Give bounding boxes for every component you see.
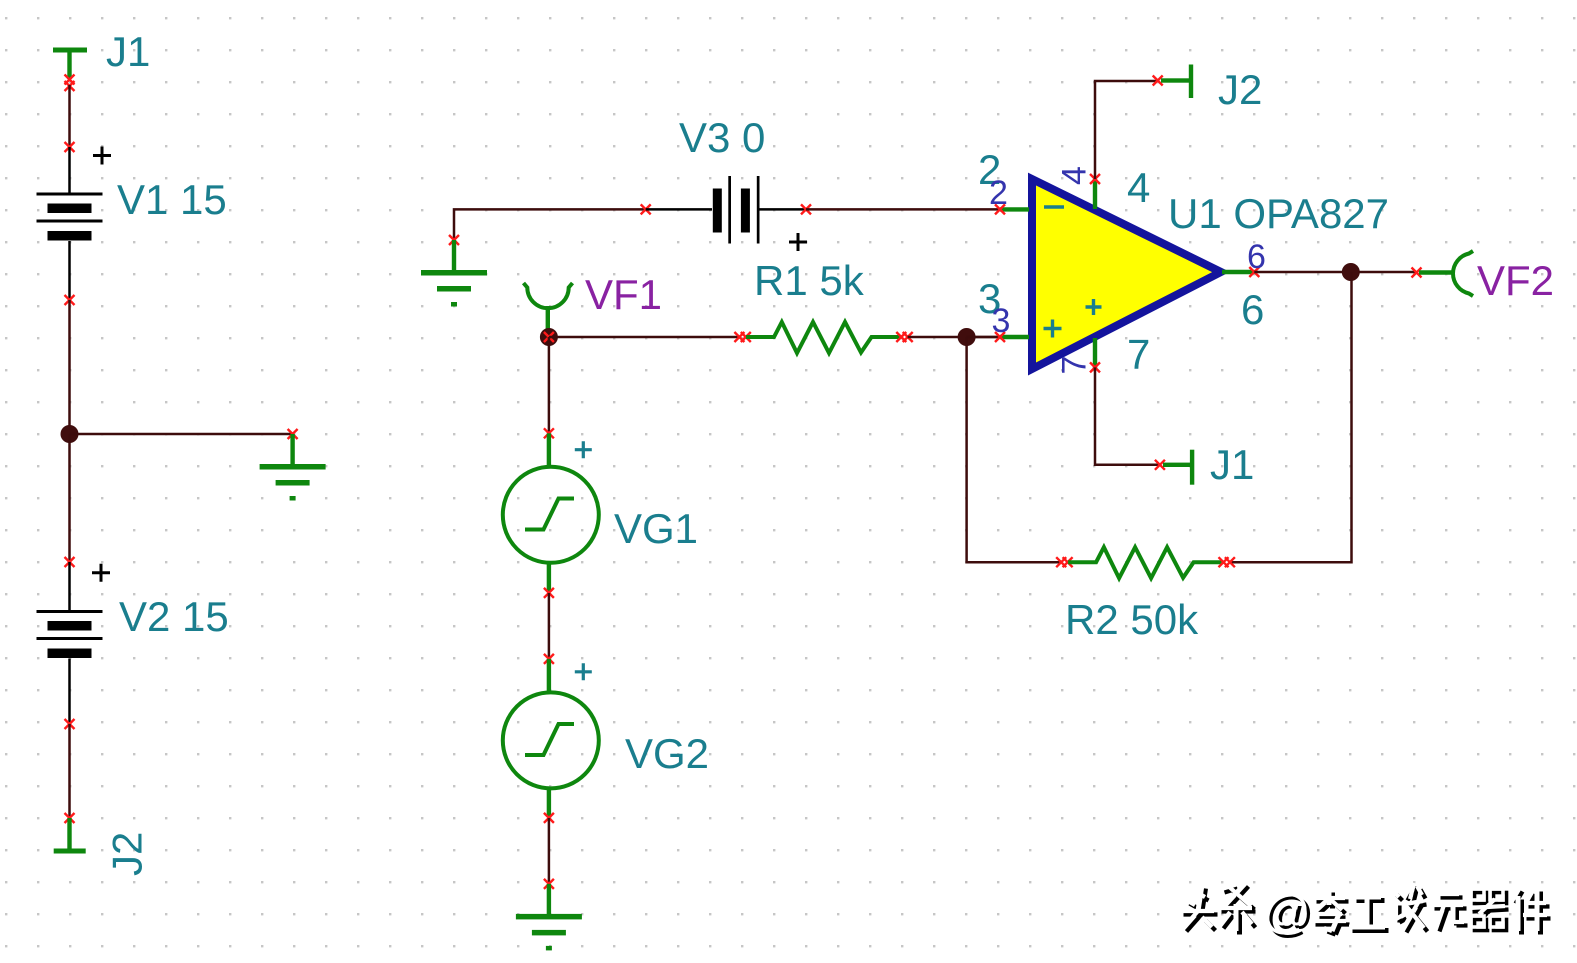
opamp plus mark input [1044, 320, 1062, 338]
x mark ground G3 [544, 879, 554, 889]
io pin J2 (bottom left) [54, 818, 86, 854]
x mark V3 left [641, 204, 651, 214]
x mark at ground G1 [288, 429, 298, 439]
junction node left [61, 425, 79, 443]
svg-text:@: @ [1262, 886, 1311, 939]
svg-text:V3 0: V3 0 [679, 114, 765, 161]
x mark on VF1 node [544, 332, 554, 342]
x marks R1 left [734, 332, 750, 342]
x mark pin4 [1090, 174, 1100, 184]
x mark VG2 bottom [544, 813, 554, 823]
wire V3 to opamp pin2 [806, 208, 1000, 211]
wire VF1 node down to VG1 [548, 337, 551, 433]
svg-text:6: 6 [1247, 238, 1266, 276]
x mark VG1 bottom [544, 588, 554, 598]
wire VG2 to ground [548, 818, 551, 884]
op-amp U1 body [1032, 179, 1221, 369]
ground G2 [421, 240, 487, 307]
resistor R1 [746, 322, 900, 353]
wire output node down [1230, 272, 1352, 562]
pin2 lead [1000, 207, 1029, 211]
x mark VG1 top [544, 428, 554, 438]
io pin J2 flag [1161, 65, 1193, 99]
x mark V1 bottom [65, 295, 75, 305]
x mark V2 top [65, 557, 75, 567]
svg-text:J1: J1 [1210, 441, 1254, 488]
opamp plus mark center [1086, 299, 1102, 315]
pin3 lead [967, 336, 1029, 339]
x mark at ground G2 [449, 235, 459, 245]
svg-text:U1 OPA827: U1 OPA827 [1168, 190, 1389, 237]
x marks R1 right [896, 332, 912, 342]
x marks at J1 pin [65, 75, 75, 92]
pin7 lead [1093, 338, 1097, 368]
svg-text:4: 4 [1056, 166, 1094, 185]
svg-text:3: 3 [992, 302, 1011, 340]
svg-text:J1: J1 [106, 28, 150, 75]
svg-text:R1 5k: R1 5k [754, 257, 865, 304]
battery V1 [37, 147, 103, 300]
watermark text [1184, 887, 1551, 935]
svg-text:VG2: VG2 [625, 730, 709, 777]
junction node pin3 [958, 328, 976, 346]
junction node output [1342, 263, 1360, 281]
x mark J1 flag [1155, 460, 1165, 470]
x mark VF2 [1412, 268, 1422, 278]
wire pin4 to J2 [1095, 81, 1158, 179]
source VG2 [503, 659, 599, 817]
probe VF1 [524, 283, 573, 337]
x mark V2 bottom [65, 719, 75, 729]
battery V2 [37, 562, 103, 724]
x mark J2 flag [1153, 76, 1163, 86]
svg-text:7: 7 [1127, 331, 1150, 378]
x marks R2 left [1056, 557, 1072, 567]
x mark pin3 [995, 332, 1005, 342]
x mark V3 right [801, 204, 811, 214]
io pin J1 flag [1163, 450, 1194, 485]
wire J1 to V1 [68, 85, 71, 147]
wire pin3 node down to R2 [967, 337, 1062, 562]
plus sign V2 [92, 564, 110, 582]
x mark pin6 [1249, 267, 1259, 277]
wire VG1 to VG2 [548, 593, 551, 659]
svg-text:J2: J2 [1218, 66, 1262, 113]
wire node to V2 [68, 434, 71, 562]
ground G1 [260, 434, 326, 501]
x mark at J2 pin [65, 813, 75, 823]
svg-text:VF1: VF1 [585, 271, 662, 318]
x mark VG2 top [544, 654, 554, 664]
svg-text:6: 6 [1241, 286, 1264, 333]
battery V3 (horizontal) [646, 176, 806, 244]
plus sign V1 [93, 147, 111, 165]
pin4 lead [1093, 179, 1097, 209]
wire pin7 to J1 [1095, 367, 1160, 464]
svg-text:V2 15: V2 15 [119, 593, 229, 640]
plus sign VG2 [575, 663, 592, 680]
opamp minus mark [1044, 205, 1064, 208]
ground G3 [516, 884, 582, 951]
wire VF1 to R1 [549, 336, 740, 339]
probe VF2 [1419, 251, 1473, 296]
svg-text:V1 15: V1 15 [117, 176, 227, 223]
svg-text:VF2: VF2 [1477, 257, 1554, 304]
pin6 output lead [1222, 270, 1254, 274]
wire V2 to J2 [68, 724, 71, 818]
svg-text:4: 4 [1127, 164, 1150, 211]
x mark wire/V1 [65, 142, 75, 152]
svg-text:VG1: VG1 [614, 505, 698, 552]
wire node to ground [70, 433, 293, 436]
svg-text:R2 50k: R2 50k [1065, 596, 1199, 643]
svg-text:7: 7 [1056, 356, 1094, 375]
io pin J1 (top left) [53, 48, 87, 80]
wire ground corner to V3 [454, 209, 646, 240]
x mark pin7 [1090, 362, 1100, 372]
node VF1 [540, 328, 558, 346]
plus sign VG1 [575, 441, 592, 458]
x marks R2 right [1219, 557, 1235, 567]
resistor R2 [1068, 547, 1222, 578]
plus sign V3 [789, 233, 807, 251]
wire output to VF2 [1254, 271, 1415, 274]
wire R1 to pin3 node [908, 336, 1000, 339]
source VG1 [503, 433, 599, 591]
svg-text:J2: J2 [104, 832, 151, 876]
wire V1 to node [68, 300, 71, 434]
x mark pin2 [995, 204, 1005, 214]
svg-text:2: 2 [989, 174, 1008, 212]
